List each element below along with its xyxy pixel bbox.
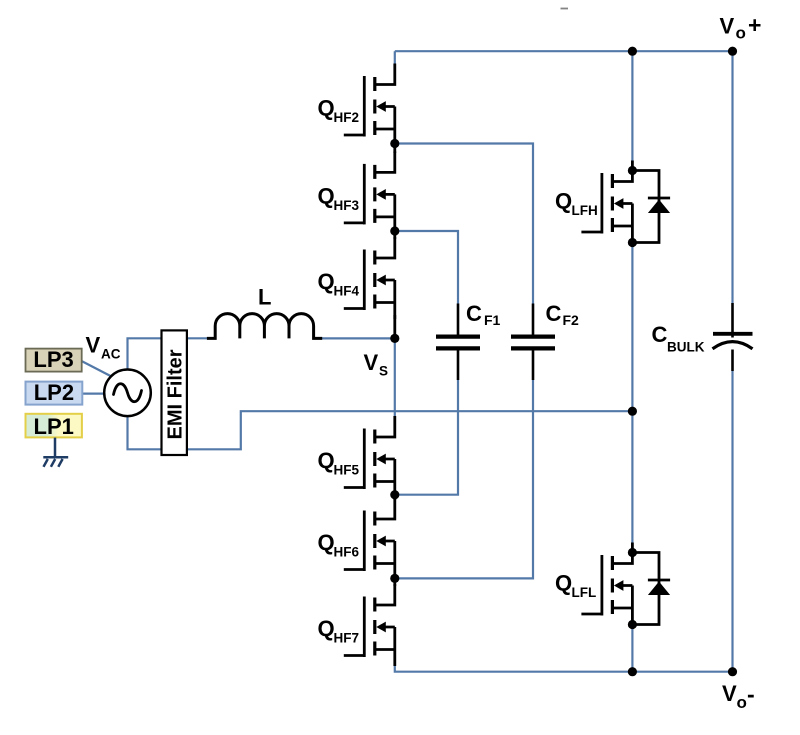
- junction node QHF2-QHF3: [390, 139, 399, 148]
- svg-text:o: o: [737, 693, 747, 712]
- svg-text:AC: AC: [101, 347, 121, 362]
- wire QHF4 drain stub: [393, 231, 396, 239]
- svg-text:Q: Q: [318, 183, 335, 208]
- wire top rail to QHF2 drain: [394, 51, 396, 64]
- wire VS to QHF5 drain: [394, 338, 396, 416]
- svg-text:Q: Q: [318, 530, 335, 555]
- diode DLFH body diode: [632, 171, 670, 243]
- label QHF6: [318, 530, 360, 560]
- label CF1: [466, 301, 501, 328]
- transistor QHF7: [344, 584, 395, 666]
- svg-text:-: -: [747, 681, 755, 707]
- svg-text:HF4: HF4: [334, 284, 360, 299]
- svg-text:C: C: [652, 322, 668, 347]
- wire AC source top to EMI filter: [128, 338, 162, 370]
- svg-text:HF7: HF7: [334, 631, 360, 646]
- junction node QHF3-QHF4: [390, 226, 399, 235]
- label Vo+: [720, 12, 762, 43]
- junction node QLFL drain: [628, 548, 637, 557]
- wire QHF2 source to CF2 top: [395, 144, 533, 304]
- wire bottom rail Vo-: [395, 665, 733, 672]
- svg-text:LFH: LFH: [572, 203, 598, 218]
- junction node top rail Vo+: [728, 47, 737, 56]
- svg-text:LFL: LFL: [572, 585, 597, 600]
- svg-text:S: S: [379, 364, 388, 379]
- transistor QHF6: [344, 498, 395, 580]
- svg-text:Q: Q: [555, 571, 572, 596]
- junction node bottom rail QLF: [628, 667, 637, 676]
- wire LP3 to AC source: [82, 361, 112, 377]
- svg-text:F2: F2: [563, 312, 580, 328]
- transistor QHF4: [344, 237, 395, 319]
- wire LP2 to AC source: [82, 393, 105, 395]
- transistor QHF3: [344, 151, 395, 233]
- transistor QHF2: [344, 64, 395, 146]
- inductor L: [207, 314, 322, 339]
- AC source VAC: [104, 370, 151, 417]
- wire inductor to node VS: [321, 337, 395, 339]
- svg-text:V: V: [364, 350, 379, 375]
- svg-text:L: L: [258, 285, 271, 310]
- transistor QLFH: [581, 161, 632, 243]
- node LP1 box: [26, 414, 82, 439]
- svg-text:V: V: [722, 681, 737, 706]
- svg-text:V: V: [720, 14, 735, 39]
- label QHF4: [318, 269, 360, 299]
- capacitor CF2: [511, 304, 555, 381]
- svg-text:F1: F1: [484, 312, 501, 328]
- wire EMI filter to inductor: [187, 337, 208, 339]
- svg-text:V: V: [86, 333, 101, 358]
- node LP2 box: [26, 380, 83, 405]
- label Vo-: [722, 681, 755, 712]
- transistor QLFL: [581, 543, 632, 625]
- wire QLF rail upper: [631, 51, 633, 162]
- junction node QLFH drain: [628, 166, 637, 175]
- artifact mark top edge: [561, 8, 569, 10]
- node LP3 box: [26, 347, 82, 372]
- capacitor CBULK polarized: [713, 303, 753, 371]
- svg-text:HF6: HF6: [334, 545, 360, 560]
- junction node AC return: [628, 407, 637, 416]
- wire QHF3 source to CF1 top: [395, 231, 458, 304]
- label QHF2: [318, 96, 360, 126]
- wire QHF4 source to VS: [393, 315, 396, 338]
- wire QHF3 drain stub: [393, 144, 396, 154]
- diode DLFL body diode: [632, 553, 670, 625]
- wire QHF6 source to CF2 bottom: [395, 380, 533, 578]
- junction node VS: [390, 334, 399, 343]
- svg-text:HF5: HF5: [334, 463, 360, 478]
- junction node bottom rail Vo-: [728, 667, 737, 676]
- svg-text:Q: Q: [318, 269, 335, 294]
- wire AC source bottom to EMI filter: [128, 416, 162, 450]
- label QHF3: [318, 183, 360, 213]
- svg-text:C: C: [546, 301, 562, 326]
- wire top rail Vo+: [395, 50, 733, 52]
- EMI filter box: [162, 330, 187, 455]
- svg-text:Q: Q: [318, 616, 335, 641]
- label VAC: [86, 333, 121, 362]
- wire LP1 to ground: [54, 438, 57, 458]
- svg-text:HF3: HF3: [334, 198, 360, 213]
- wire right rail upper: [731, 51, 733, 303]
- svg-text:C: C: [466, 301, 482, 326]
- svg-text:+: +: [748, 12, 761, 38]
- junction node QLFL source: [628, 620, 637, 629]
- svg-text:Q: Q: [555, 189, 572, 214]
- svg-text:Q: Q: [318, 96, 335, 121]
- svg-text:LP2: LP2: [34, 380, 74, 405]
- wire QHF6 drain stub: [393, 495, 396, 500]
- wire QLF rail middle: [631, 243, 633, 544]
- wire AC return to QLF midpoint: [187, 411, 633, 449]
- wire QHF7 drain stub: [393, 578, 396, 586]
- label QLFL: [555, 571, 596, 601]
- junction node top rail QLF: [628, 47, 637, 56]
- label QHF5: [318, 448, 360, 478]
- wire right rail lower: [731, 371, 733, 672]
- svg-text:LP3: LP3: [33, 347, 73, 372]
- junction node QLFH source: [628, 238, 637, 247]
- junction node QHF5-QHF6: [390, 490, 399, 499]
- wire QLF rail lower: [631, 625, 633, 672]
- svg-text:BULK: BULK: [667, 340, 705, 355]
- svg-text:HF2: HF2: [334, 110, 360, 125]
- svg-text:o: o: [736, 24, 746, 43]
- transistor QHF5: [344, 416, 395, 498]
- svg-text:EMI Filter: EMI Filter: [164, 349, 186, 439]
- ground: [43, 457, 68, 467]
- label VS: [364, 350, 389, 379]
- label QLFH: [555, 189, 598, 219]
- svg-text:Q: Q: [318, 448, 335, 473]
- label QHF7: [318, 616, 360, 646]
- label CF2: [546, 301, 580, 328]
- label CBULK: [652, 322, 705, 355]
- capacitor CF1: [436, 304, 480, 381]
- svg-text:LP1: LP1: [34, 414, 74, 439]
- wire QHF5 source to CF1 bottom: [395, 380, 458, 495]
- junction node QHF6-QHF7: [390, 574, 399, 583]
